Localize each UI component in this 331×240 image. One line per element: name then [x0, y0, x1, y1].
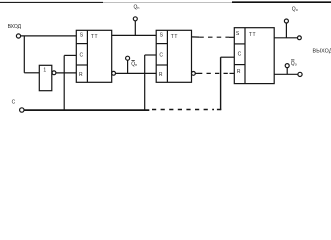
- flip-flop U4 (TT) box: [234, 28, 274, 84]
- svg-text:Qo: Qo: [291, 61, 297, 67]
- svg-text:S: S: [236, 31, 240, 37]
- svg-text:R: R: [159, 72, 163, 78]
- svg-text:Qn: Qn: [134, 5, 140, 11]
- wire Q2-bar stub: [195, 72, 198, 74]
- svg-text:TT: TT: [249, 32, 256, 38]
- node Go stub: [285, 23, 287, 38]
- svg-text:TT: TT: [171, 34, 178, 40]
- FF2 inverted output bubble: [192, 72, 196, 76]
- FF1 inverted output bubble: [112, 71, 116, 75]
- terminal Qn: [133, 17, 137, 21]
- wire Q1 to S of FF2: [112, 34, 157, 36]
- clock wire vertical to C of FF1: [63, 56, 65, 110]
- wire into R of FF3: [230, 72, 235, 74]
- svg-text:C: C: [79, 52, 83, 58]
- wire Q3 output: [274, 37, 297, 39]
- wire Q2 stub: [192, 36, 200, 38]
- svg-text:ВХОД: ВХОД: [8, 24, 22, 30]
- terminal Qn-bar: [126, 56, 130, 60]
- svg-text:Qo: Qo: [292, 6, 298, 12]
- input terminal ВХОД: [16, 34, 20, 38]
- dashed omitted-stage wire S-level: [199, 36, 229, 38]
- flip-flop U3 (TT) box: [156, 30, 191, 82]
- wire inverter to R of FF1: [56, 72, 76, 74]
- node Qn-bar stub: [127, 60, 129, 73]
- svg-text:C: C: [238, 51, 242, 57]
- wire into S of FF3: [229, 36, 234, 38]
- svg-text:ВЫХОД: ВЫХОД: [313, 49, 331, 55]
- svg-text:1: 1: [43, 68, 46, 74]
- terminal Qo-bar: [285, 64, 289, 68]
- wire Q3-bar output: [274, 73, 298, 75]
- svg-text:S: S: [80, 33, 84, 39]
- svg-text:S: S: [160, 33, 164, 39]
- wire to C input FF1: [64, 54, 76, 56]
- svg-text:TT: TT: [91, 34, 98, 40]
- terminal output Q-bar: [298, 72, 302, 76]
- svg-text:R: R: [79, 72, 83, 78]
- dashed omitted-stage wire R-level: [198, 72, 230, 74]
- clock wire vertical to C of FF3: [220, 57, 222, 110]
- wire branch down to inverter: [23, 36, 25, 73]
- top scan-edge line: [0, 1, 103, 3]
- node Qo-bar stub: [286, 68, 288, 75]
- inverter U1 box: [39, 65, 52, 90]
- wire to C input FF2: [145, 54, 157, 56]
- wire clock bus dashed: [152, 109, 214, 111]
- terminal Go: [284, 19, 288, 23]
- terminal output Q: [298, 36, 302, 40]
- wire to inverter input: [24, 72, 39, 74]
- terminal C clock: [20, 108, 24, 112]
- node Qn stub: [134, 21, 136, 35]
- wire Q1-bar to R of FF2: [116, 72, 157, 74]
- clock wire vertical to C of FF2: [144, 55, 146, 110]
- wire input to S of FF1: [21, 35, 77, 37]
- wire clock bus solid: [24, 109, 149, 111]
- svg-text:С: С: [12, 100, 16, 106]
- inverter output bubble: [52, 71, 56, 75]
- svg-text:R: R: [237, 69, 241, 75]
- flip-flop U2 (TT) box: [76, 30, 111, 82]
- svg-text:Qn: Qn: [131, 61, 137, 67]
- svg-text:C: C: [159, 52, 163, 58]
- wire to C input FF3: [221, 56, 235, 58]
